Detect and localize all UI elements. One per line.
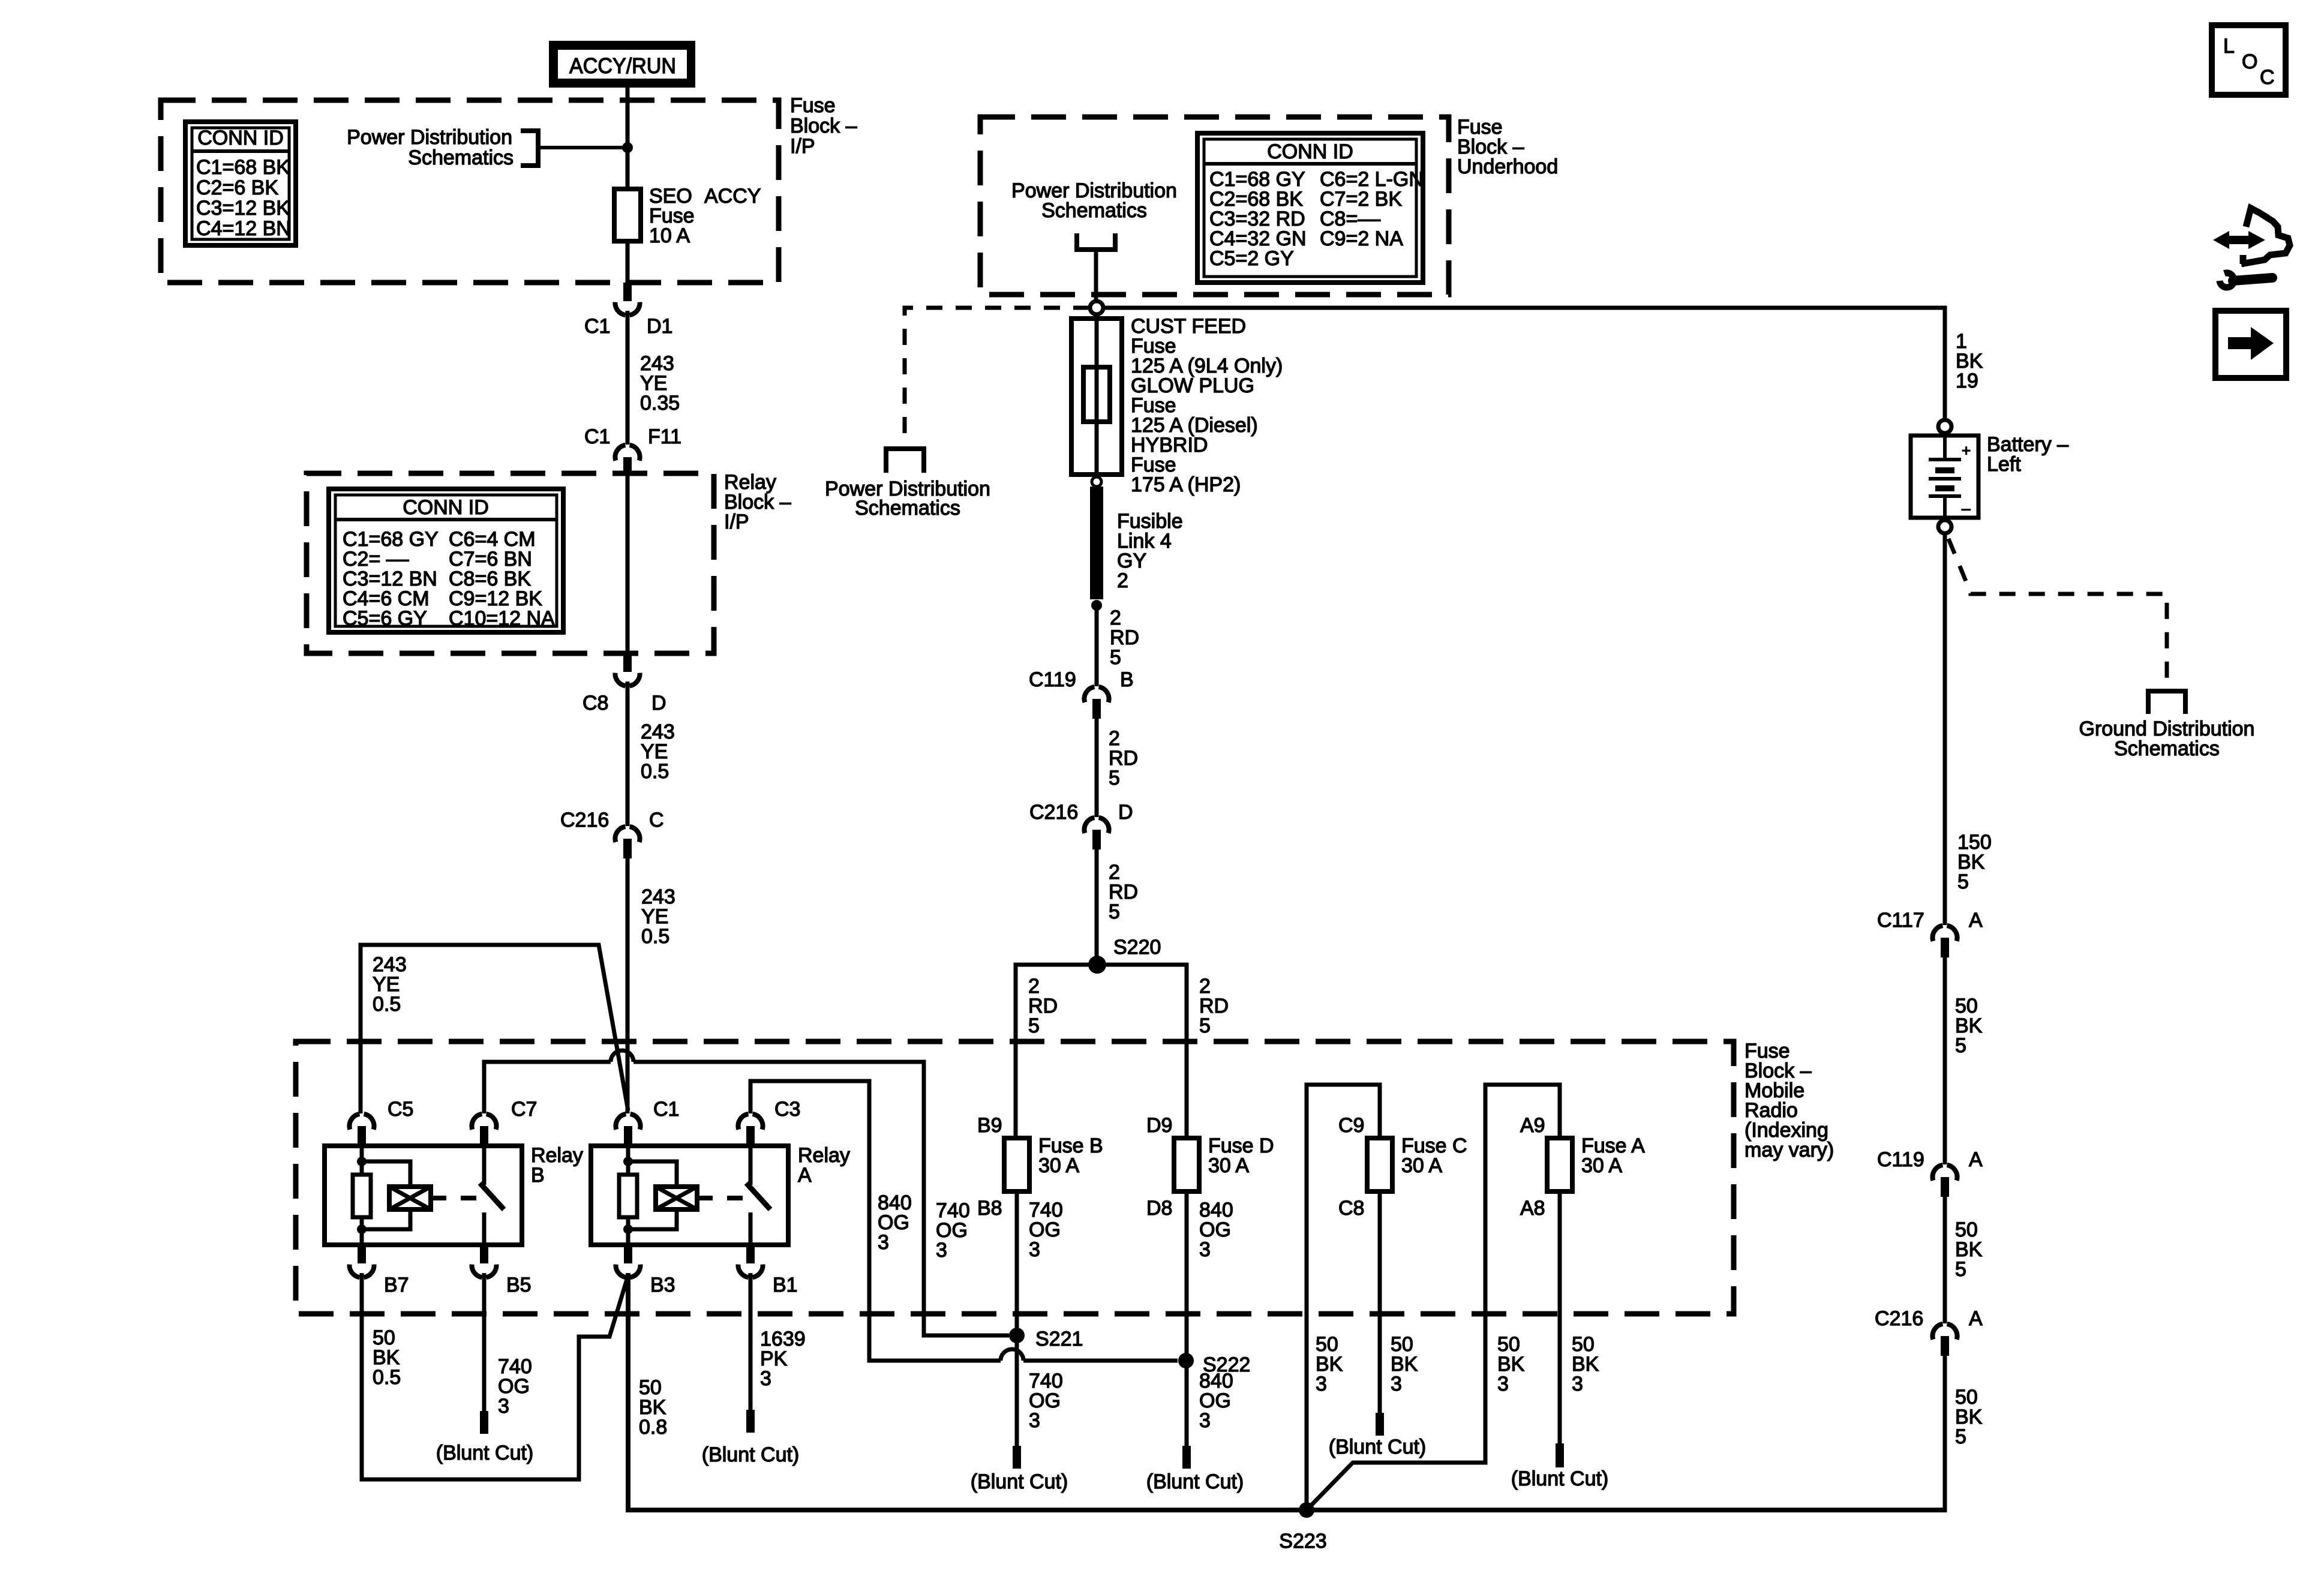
svg-text:may vary): may vary) [1744,1139,1834,1161]
wire label 2 RD 5 [1109,727,1138,789]
branch wire to Relay B coil [361,945,628,1113]
svg-text:Fuse: Fuse [790,94,836,117]
blunt cut terminal B1 [746,1410,755,1433]
svg-text:C5: C5 [388,1098,413,1121]
svg-text:C119: C119 [1029,668,1076,691]
svg-text:B9: B9 [977,1114,1002,1137]
svg-text:ACCY: ACCY [704,185,761,208]
svg-text:5: 5 [1957,870,1969,893]
splice S223 [1299,1502,1314,1518]
pin labels C1 F11 [584,425,681,448]
pin labels C216 A [1875,1307,1983,1330]
wire 2 RD 5 [1095,719,1099,817]
svg-text:C1: C1 [653,1098,679,1121]
relay A switch [746,1146,770,1245]
label Fuse B 30 A [1038,1134,1103,1177]
svg-text:D: D [651,692,666,715]
fusible link 4 [1090,487,1103,599]
label Fuse D 30 A [1208,1134,1274,1177]
svg-text:O: O [2242,50,2257,73]
svg-text:C216: C216 [560,809,609,831]
svg-text:5: 5 [1109,767,1120,789]
wire label 2 RD 5 [1110,607,1139,669]
connector C1/F11 [615,445,639,473]
svg-text:C8: C8 [1338,1197,1364,1220]
svg-text:A8: A8 [1520,1197,1545,1220]
node battery feed (circle) [1090,301,1103,314]
svg-text:CONN ID: CONN ID [197,127,284,149]
wire battery negative down [1943,533,1947,925]
wire label 2 RD 5 (left) [1028,975,1058,1037]
svg-text:A: A [798,1164,812,1187]
svg-text:3: 3 [498,1395,509,1418]
relay B label [531,1144,583,1187]
wire label 50 BK 0.5 [373,1326,401,1389]
label Battery Left [1987,433,2068,476]
svg-text:3: 3 [1199,1238,1211,1261]
svg-text:+: + [1962,442,1971,460]
svg-text:3: 3 [878,1231,889,1254]
wire B3 to ground bus [628,1273,1945,1510]
blunt cut terminal (fuse C) [1376,1413,1384,1436]
junction dot below fusible link [1091,600,1102,611]
svg-text:0.5: 0.5 [641,760,669,783]
label CUST FEED fuse [1131,315,1283,496]
svg-text:(Blunt Cut): (Blunt Cut) [971,1470,1068,1493]
wire 243 YE 0.5 (lower) [626,858,630,1113]
svg-text:A9: A9 [1520,1114,1545,1137]
svg-text:(Blunt Cut): (Blunt Cut) [1146,1470,1244,1493]
wire fuse C output blunt cut [1378,1191,1382,1414]
svg-text:175 A (HP2): 175 A (HP2) [1131,473,1241,496]
svg-text:C3=12 BK: C3=12 BK [196,197,290,220]
fuse block I/P dashed box [161,100,779,283]
svg-text:C9: C9 [1338,1114,1364,1137]
wire label 1639 PK 3 [760,1328,806,1390]
wire fuse A output blunt cut [1558,1191,1562,1445]
label Power Distribution Schematics (top left) [347,126,514,169]
wire label 840 OG 3 (below S222) [1199,1370,1233,1432]
svg-text:B3: B3 [650,1274,675,1296]
svg-text:A: A [1969,909,1983,932]
svg-text:3: 3 [1497,1373,1509,1395]
svg-text:D1: D1 [647,315,672,338]
wire B1 blunt cut [749,1273,753,1411]
fuse Fuse B 30 A [1004,1138,1029,1191]
svg-text:B7: B7 [384,1274,409,1296]
svg-text:3: 3 [1029,1409,1040,1432]
wire fuse D output to S222 and blunt cut [1185,1191,1189,1447]
connector C216/A [1932,1324,1957,1356]
wire hop over main wire [611,1050,633,1062]
wire 243 YE 0.5 (upper) [626,684,630,826]
svg-text:B5: B5 [506,1274,532,1296]
svg-text:(Blunt Cut): (Blunt Cut) [1329,1436,1427,1458]
connector relay pin C7 [472,1114,496,1146]
pin labels C216 C [560,809,664,831]
connector C117/A [1932,926,1957,957]
wire label 840 OG 3 (below fuse D) [1199,1199,1233,1261]
svg-text:C1: C1 [584,315,610,338]
svg-text:C3: C3 [774,1098,800,1121]
ACCY/RUN power feed box [549,41,695,88]
svg-text:F11: F11 [648,425,681,448]
fuse Fuse A 30 A [1547,1138,1572,1191]
battery Battery Left [1911,436,1978,518]
off-page bracket (underhood PDS) [1077,233,1115,250]
svg-text:Schematics: Schematics [408,146,514,169]
svg-text:(Blunt Cut): (Blunt Cut) [436,1442,534,1464]
svg-text:C117: C117 [1877,909,1924,932]
dashed wire to Ground Distribution Schematics [1948,539,2167,689]
svg-text:I/P: I/P [790,135,815,158]
relay A label [798,1144,850,1187]
wire label 740 OG 3 (below fuse B) [1029,1199,1063,1261]
svg-text:10 A: 10 A [649,224,690,247]
label Power Distribution Schematics (underhood) [1011,179,1177,222]
wire label 50 BK 3 (fuse A feed) [1497,1333,1525,1395]
svg-text:B: B [1120,668,1134,691]
svg-text:Schematics: Schematics [1041,199,1147,222]
relay B box [325,1146,522,1245]
svg-text:C: C [649,809,664,831]
svg-text:Schematics: Schematics [2114,737,2220,760]
svg-text:Block –: Block – [790,115,857,137]
fuse Fuse C 30 A [1367,1138,1392,1191]
wire 243 YE 0.35 [626,313,630,445]
label Power Distribution Schematics (lower) [825,478,990,520]
svg-text:5: 5 [1199,1014,1211,1037]
CONN ID table (Relay Block I/P) [329,489,563,632]
wire fuse to C1/D1 [626,241,630,283]
off-page bracket (Power Distribution Schematics) [521,131,538,166]
wire label 740 OG 3 (below S221) [1029,1370,1063,1432]
svg-text:Schematics: Schematics [855,497,960,520]
connector C119/A [1932,1165,1957,1197]
svg-text:C216: C216 [1029,801,1078,824]
svg-text:5: 5 [1110,646,1121,669]
wire feed to battery (1 BK 19 run) [1104,308,1945,421]
wire label 50 BK 5 [1955,1218,1983,1281]
label Fuse A 30 A [1581,1134,1645,1177]
wire label 243 YE 0.35 [640,352,680,415]
wire label 50 BK 5 [1955,1386,1983,1448]
wire bracket to feed node [1094,250,1098,299]
svg-text:D: D [1118,801,1133,824]
wire label 740 OG 3 (B5) [498,1355,532,1418]
svg-text:5: 5 [1955,1425,1966,1448]
fuse SEO ACCY 10 A [614,189,641,241]
connector relay pin B7 [349,1245,374,1279]
svg-text:Left: Left [1987,453,2021,476]
svg-text:C5=2 GY: C5=2 GY [1209,247,1294,270]
svg-text:C4=12 BN: C4=12 BN [196,217,291,240]
splice S222 [1178,1353,1194,1368]
wire label 2 RD 5 (right) [1199,975,1229,1037]
svg-text:3: 3 [1572,1373,1583,1395]
svg-text:5: 5 [1955,1034,1966,1057]
svg-text:B: B [531,1164,545,1187]
splice S221 [1009,1328,1025,1343]
svg-text:L: L [2223,35,2235,58]
connector relay pin B5 [472,1245,496,1279]
svg-text:C2=6 BK: C2=6 BK [196,176,278,199]
svg-text:5: 5 [1109,900,1120,923]
wire label 150 BK 5 [1957,831,1992,893]
pin labels C216 D [1029,801,1133,824]
next-page arrow box [2215,311,2286,378]
svg-text:0.5: 0.5 [641,925,669,948]
battery terminal circle (-) [1938,520,1951,533]
svg-text:C5=6 GY: C5=6 GY [343,607,427,630]
splice S220 [1088,956,1106,974]
wire B5 blunt cut [482,1273,487,1412]
svg-text:0.35: 0.35 [640,392,680,415]
relay A actuator dashed link [697,1196,743,1200]
wire C3 switched feed [750,1081,1001,1361]
label Ground Distribution Schematics [2079,718,2255,760]
pin labels C8 D [582,692,666,715]
svg-text:S220: S220 [1113,936,1161,959]
LOC legend box [2212,25,2286,95]
svg-text:19: 19 [1956,370,1978,392]
svg-text:A: A [1969,1148,1983,1171]
blunt cut terminal B5 [480,1411,488,1434]
wire B7 ground path [362,1273,628,1479]
wire label 50 BK 3 (fuse C feed) [1316,1333,1343,1395]
svg-text:3: 3 [1391,1373,1402,1395]
connector relay pin C3 [738,1114,762,1146]
svg-text:C8: C8 [582,692,608,715]
svg-text:S223: S223 [1279,1530,1326,1553]
pin labels C119 B [1029,668,1134,691]
wire S223 to fuse A [1307,1085,1560,1510]
svg-text:3: 3 [936,1239,947,1262]
wire hop over fuse B wire [1001,1349,1023,1361]
CONN ID table (Fuse Block Underhood) [1197,133,1424,283]
svg-text:C: C [2260,66,2275,89]
connector C1/D1 [615,283,639,317]
wire label 50 BK 3 (fuse A out) [1572,1333,1599,1395]
svg-text:C9=2 NA: C9=2 NA [1320,227,1403,250]
node junction to Power Distribution Schematics [622,142,633,153]
label Fusible Link 4 GY 2 [1117,510,1183,592]
svg-text:Underhood: Underhood [1457,155,1558,178]
svg-text:5: 5 [1028,1014,1040,1037]
svg-text:C10=12 NA: C10=12 NA [449,607,555,630]
node (circle) below fuse [1092,477,1101,487]
label Fuse Block I/P [790,94,857,158]
svg-text:30 A: 30 A [1038,1154,1079,1177]
relay A box [591,1146,788,1245]
svg-text:3: 3 [1316,1373,1327,1395]
svg-text:–: – [1962,499,1971,517]
blunt cut terminal (fuse A) [1556,1443,1564,1467]
svg-text:D9: D9 [1146,1114,1172,1137]
svg-text:(Blunt Cut): (Blunt Cut) [1511,1467,1609,1490]
wire 2 RD 5 to S220 [1095,849,1099,965]
pin labels C1 D1 [584,315,672,338]
wire S223 to fuse C [1307,1085,1380,1510]
svg-text:I/P: I/P [724,511,749,533]
svg-text:0.5: 0.5 [373,993,401,1016]
svg-text:C119: C119 [1877,1148,1924,1171]
wire through relay block [626,473,630,653]
connector C216/C [615,827,639,858]
CONN ID table (Fuse Block I/P) [185,122,296,245]
svg-text:30 A: 30 A [1581,1154,1622,1177]
connector C8/D [615,653,639,688]
off-page bracket (Ground Distribution) [2148,691,2185,714]
wire label 243 YE 0.5 [641,885,675,948]
svg-text:C1: C1 [584,425,610,448]
dashed wire to Power Distribution Schematics [905,308,1089,448]
connector relay pin C1 [615,1114,640,1146]
wire label 243 YE 0.5 (branch) [373,953,407,1016]
wire C7 switched feed [484,1062,611,1113]
svg-text:B1: B1 [773,1274,798,1296]
pin labels C119 A [1877,1148,1983,1171]
connector relay pin B3 [615,1245,640,1279]
wire label 50 BK 5 [1955,995,1983,1057]
pin labels C117 A [1877,909,1983,932]
svg-text:C216: C216 [1875,1307,1923,1330]
svg-text:C1=68 BK: C1=68 BK [196,156,290,179]
wire label 840 OG 3 [878,1191,912,1254]
label Relay Block I/P [724,471,791,533]
svg-text:30 A: 30 A [1208,1154,1249,1177]
wire 50 BK 5 [1943,1197,1947,1323]
connector relay pin B1 [738,1245,762,1279]
diagnostic icon (arrows and wrench) [2213,208,2290,287]
svg-text:Power Distribution: Power Distribution [347,126,512,149]
fuse block Underhood dashed box [980,117,1449,295]
branch wires to Fuse B and Fuse D [1016,965,1187,1138]
svg-text:3: 3 [1029,1238,1040,1261]
svg-text:2: 2 [1117,569,1128,592]
svg-text:CONN ID: CONN ID [1267,140,1353,163]
fuse CUST FEED / GLOW PLUG / HYBRID [1071,317,1122,477]
wire label 50 BK 0.8 [639,1376,667,1439]
relay block I/P dashed box [307,473,714,653]
wire 2 RD 5 [1095,605,1099,686]
svg-text:3: 3 [760,1367,771,1390]
svg-text:5: 5 [1955,1258,1966,1281]
wire 50 BK 5 [1943,957,1947,1164]
connector relay pin C5 [349,1114,374,1146]
connector C216/D [1084,818,1109,849]
wire fuse B output to S221 and blunt cut [1015,1191,1019,1447]
svg-text:A: A [1969,1307,1983,1330]
fuse Fuse D 30 A [1174,1138,1199,1191]
relay B actuator dashed link [431,1196,476,1200]
wire to ground bus [1943,1356,1947,1512]
label Fuse C 30 A [1401,1134,1467,1177]
svg-text:0.8: 0.8 [639,1416,667,1439]
wire ACCY/RUN to SEO ACCY fuse [626,88,630,191]
svg-text:C7: C7 [511,1098,537,1121]
blunt cut terminal (fuse B) [1013,1446,1021,1469]
connector C119/B [1084,687,1109,719]
svg-text:CONN ID: CONN ID [403,496,489,519]
wire label 740 OG 3 [936,1199,970,1262]
fuse block Mobile Radio dashed box [296,1041,1734,1314]
blunt cut terminal (fuse D) [1182,1446,1191,1469]
label Fuse Block Underhood [1457,116,1558,178]
off-page bracket (lower PDS) [886,449,924,473]
relay B switch [480,1146,504,1245]
relay B coil circuit [353,1146,431,1245]
wire label 1 BK 19 [1956,330,1983,392]
svg-text:30 A: 30 A [1401,1154,1442,1177]
label Fuse Block Mobile Radio [1744,1040,1834,1161]
svg-text:ACCY/RUN: ACCY/RUN [569,53,676,78]
wire label 243 YE 0.5 [641,721,675,783]
wire label 2 RD 5 [1109,861,1138,923]
svg-text:3: 3 [1199,1409,1211,1432]
label SEO ACCY Fuse 10 A [649,185,761,247]
svg-text:0.5: 0.5 [373,1366,401,1389]
relay A coil circuit [619,1146,697,1245]
battery terminal circle (+) [1938,420,1951,433]
svg-text:S221: S221 [1035,1328,1083,1350]
svg-text:B8: B8 [977,1197,1002,1220]
svg-text:(Blunt Cut): (Blunt Cut) [702,1443,800,1466]
wire to schematic reference bracket [538,146,627,149]
wire label 50 BK 3 (fuse C out) [1391,1333,1418,1395]
svg-text:D8: D8 [1146,1197,1172,1220]
